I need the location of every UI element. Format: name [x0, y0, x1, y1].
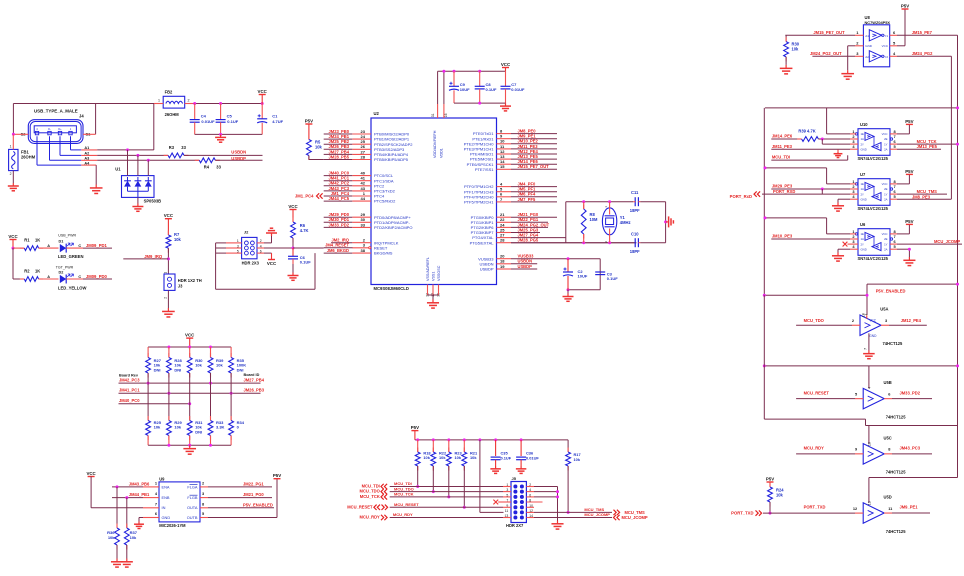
svg-text:GND: GND	[861, 147, 867, 151]
ground under U5A	[863, 351, 875, 359]
MCU pin 26 PTB3/SS2/ADP3	[324, 144, 405, 152]
resistor R37	[124, 498, 137, 559]
wire ENB JM44_PB1	[112, 497, 159, 499]
svg-text:JM8_PE3: JM8_PE3	[912, 194, 931, 199]
net JM09_PD1	[86, 243, 108, 248]
net MCU_RESET label	[394, 502, 419, 507]
svg-text:0.1UF: 0.1UF	[486, 87, 497, 92]
MCU pin 9 PTE1/RxD1	[472, 134, 557, 142]
resistor R31	[187, 373, 203, 445]
wire FLGB JM21_PG0	[200, 497, 272, 499]
wire MCU_TCK	[390, 496, 511, 498]
svg-text:VCC: VCC	[8, 234, 18, 239]
wire MCU_TDO	[796, 324, 860, 326]
svg-text:18PF: 18PF	[630, 249, 640, 254]
wire VDD risers	[438, 71, 444, 118]
junction	[116, 485, 119, 488]
svg-text:VCC: VCC	[882, 44, 889, 48]
wire VUSB33 rail	[568, 259, 600, 290]
junction	[167, 444, 170, 447]
svg-text:U2: U2	[374, 111, 380, 116]
MCU pin 40 PTC0/SCL	[324, 171, 394, 179]
net MCU_RESET at U5B	[804, 390, 830, 395]
svg-text:14: 14	[861, 313, 865, 317]
MCU pin 2 IRQ/TPMCLK	[331, 238, 399, 246]
junction	[567, 257, 570, 260]
svg-text:10k: 10k	[130, 535, 137, 540]
wire JM14_PE6 with R39	[771, 137, 858, 142]
net MCU_TCK label	[394, 492, 414, 497]
net port MCU_TCK	[360, 494, 387, 500]
svg-text:USBDP: USBDP	[231, 156, 246, 161]
svg-text:1K: 1K	[35, 237, 40, 242]
net MCU_JCOMP label	[584, 512, 610, 517]
svg-text:VCC: VCC	[258, 89, 268, 94]
svg-text:Y2: Y2	[884, 55, 888, 59]
power VCC above R7	[164, 213, 174, 235]
junction	[821, 188, 824, 191]
wire EXTAL bottom rail	[511, 242, 636, 244]
ground under A4	[90, 185, 103, 194]
net JM8_PE3	[912, 194, 931, 199]
ground under network	[183, 445, 196, 454]
svg-text:2Y: 2Y	[861, 192, 865, 196]
ground under C7	[500, 103, 511, 111]
svg-text:10UF: 10UF	[578, 274, 588, 279]
wire U7 pin4 gnd	[838, 199, 858, 202]
wire TVS gnd	[137, 197, 139, 203]
wire enable bus jog to U5C	[764, 295, 957, 443]
resistor R36	[107, 487, 119, 559]
svg-text:J4: J4	[79, 113, 84, 118]
ground at U7 pin4	[832, 203, 844, 212]
wire TVS leg3	[147, 160, 149, 175]
wire ENA JM43_PB6	[112, 486, 159, 488]
svg-text:SN74LVC2G125: SN74LVC2G125	[858, 156, 889, 161]
junction	[463, 438, 466, 441]
svg-text:1A: 1A	[861, 187, 865, 191]
svg-text:HDR 2X3: HDR 2X3	[242, 260, 260, 265]
capacitor C3	[595, 271, 618, 281]
svg-text:P5V: P5V	[273, 473, 281, 478]
svg-text:33: 33	[361, 222, 366, 227]
svg-text:U9: U9	[159, 476, 165, 481]
wire U7 pin1 enable	[765, 168, 856, 184]
net MCU_TDI label	[394, 481, 412, 486]
svg-text:LED_GREEN: LED_GREEN	[58, 254, 84, 259]
MCU pin 28 PTG5/EXTAL	[470, 238, 637, 246]
junction	[821, 138, 824, 141]
net MCU_TCK	[917, 139, 937, 144]
resistor R30	[187, 347, 203, 378]
svg-text:2A: 2A	[884, 247, 888, 251]
svg-text:VSS1: VSS1	[432, 272, 436, 281]
svg-text:P5V_ENABLED: P5V_ENABLED	[876, 289, 906, 294]
svg-text:Board ID: Board ID	[244, 373, 260, 377]
junction	[261, 102, 264, 105]
power VCC at U9	[86, 471, 96, 477]
svg-text:GND: GND	[162, 515, 171, 520]
ferrite bead FB2	[158, 90, 190, 118]
net JM27_PB4	[244, 378, 265, 383]
svg-text:JM29_PE3: JM29_PE3	[772, 184, 793, 189]
svg-text:JM09_PD0: JM09_PD0	[86, 274, 108, 279]
wire network top rail	[148, 346, 231, 348]
net JM09_PD0	[86, 274, 108, 279]
IC U6 SN74LVC2G125	[852, 222, 896, 261]
ground at U9	[134, 522, 144, 529]
svg-text:JM13_PE5: JM13_PE5	[917, 144, 938, 149]
wire FB1 top	[12, 134, 14, 149]
MCU pin 15 PTE7/SS1	[475, 164, 557, 172]
MCU pin 22 PTG1/KBIP1	[471, 217, 548, 225]
net JM9_PE1	[900, 505, 919, 510]
svg-text:PORT_RXD: PORT_RXD	[773, 189, 795, 194]
wire U5D out JM9_PE1	[884, 512, 930, 514]
junction	[956, 364, 959, 367]
svg-text:GND: GND	[869, 334, 877, 338]
svg-text:MIC2026-1YM: MIC2026-1YM	[159, 523, 186, 528]
wire enable bus horizontal	[765, 107, 958, 109]
wire J5 pin8 stub	[526, 501, 542, 503]
MCU pin 24 PTB1/MOSI2/ADP1	[324, 134, 410, 142]
svg-text:10k: 10k	[154, 425, 161, 430]
ground under J5	[551, 521, 563, 530]
wire shield loop	[13, 104, 154, 135]
junction	[556, 490, 559, 493]
junction	[866, 294, 869, 297]
wire LED1 row	[13, 247, 24, 249]
USB connector J4 USB_TYPE_A_MALE	[21, 108, 92, 143]
wire cap bottom rail	[195, 133, 263, 135]
junction	[416, 438, 419, 441]
capacitor C7	[501, 71, 525, 103]
svg-text:JM4_RESET: JM4_RESET	[325, 243, 349, 248]
junction	[447, 438, 450, 441]
wire D1 cathode	[66, 244, 112, 248]
svg-text:PTC5/RxD2: PTC5/RxD2	[374, 199, 396, 204]
MCU pin 8 PTE0/TxD1	[473, 129, 557, 137]
resistor R3	[164, 145, 189, 158]
svg-text:ENA: ENA	[162, 484, 170, 489]
MCU pin 33 PTD2/KBIP2/ACMPO	[324, 222, 413, 230]
resistor R33	[208, 373, 224, 445]
MCU pin 43 PTC3/TxD2	[324, 186, 396, 194]
svg-text:A1: A1	[84, 146, 89, 150]
U5A VCC GND pins	[861, 313, 877, 350]
wire U7 out MCU_TMS	[890, 193, 947, 195]
wire C2 gnd	[567, 290, 569, 294]
junction	[12, 247, 15, 250]
svg-text:2A: 2A	[884, 147, 888, 151]
junction	[167, 392, 170, 395]
svg-text:R3: R3	[169, 145, 175, 150]
power P5V above R5	[305, 118, 313, 139]
pin labels A1-A4	[84, 146, 90, 165]
svg-text:10k: 10k	[216, 363, 223, 368]
svg-text:10k: 10k	[792, 46, 800, 51]
svg-text:MCU_TCK: MCU_TCK	[394, 492, 414, 497]
wire JM9_IRQ stub	[123, 258, 168, 260]
power P5V above U8	[901, 3, 909, 9]
svg-text:ENB: ENB	[162, 495, 170, 500]
MCU pin 7 PTF5/TPM2CH1	[464, 197, 557, 205]
wire A2	[60, 136, 168, 155]
wire J2 pin6 to VCC	[257, 253, 272, 259]
svg-text:1Y: 1Y	[884, 242, 888, 246]
wire U6 pin5 gnd	[890, 249, 909, 257]
svg-text:JM21_PG0: JM21_PG0	[243, 492, 264, 497]
ground under U8 pin2	[841, 70, 854, 79]
MCU pin 23 PTB0/MISO2/ADP0	[324, 129, 410, 137]
svg-text:26OHM: 26OHM	[165, 112, 180, 117]
svg-text:VCC: VCC	[86, 471, 96, 476]
power P5V at U7	[905, 169, 913, 175]
wire MCU_TDI stub	[771, 155, 847, 160]
svg-text:PORT_TXD: PORT_TXD	[804, 505, 826, 510]
wire MCU_RESET to U5B	[796, 398, 863, 400]
svg-text:U6: U6	[860, 222, 866, 227]
svg-text:FLGA: FLGA	[187, 484, 198, 489]
svg-text:SP0503B: SP0503B	[144, 199, 162, 204]
svg-text:2A: 2A	[884, 197, 888, 201]
junction	[763, 364, 766, 367]
junction	[188, 346, 191, 349]
svg-text:DNI: DNI	[237, 367, 244, 372]
MCU pin 14 PTE6/SPSCK1	[467, 159, 557, 167]
svg-text:JM11_PE3: JM11_PE3	[772, 144, 793, 149]
wire R7 to J3	[167, 248, 169, 274]
wire P5V_ENABLED feeder	[764, 284, 957, 315]
svg-text:OUTB: OUTB	[187, 515, 198, 520]
svg-text:10M: 10M	[590, 217, 599, 222]
capacitor C35	[491, 440, 512, 466]
junction	[764, 166, 767, 169]
wire MCU_JCOMP	[526, 517, 612, 519]
net JM29_PE3	[772, 184, 793, 189]
wire MCU_TDI	[390, 486, 511, 488]
svg-text:HDR 1X2 TH: HDR 1X2 TH	[178, 278, 202, 283]
svg-text:JM6_BKGD: JM6_BKGD	[327, 248, 349, 253]
junction	[956, 106, 959, 109]
connector J5 HDR 2X7	[505, 476, 534, 528]
ground at U6 pin4	[832, 253, 844, 262]
svg-text:2Y: 2Y	[861, 142, 865, 146]
svg-text:0.1UF: 0.1UF	[300, 259, 311, 264]
connector J2 HDR 2X3	[237, 230, 262, 266]
junction	[188, 444, 191, 447]
svg-text:VCC: VCC	[882, 232, 888, 236]
net JM13_PE5	[917, 144, 938, 149]
svg-text:JM33_PD2: JM33_PD2	[900, 390, 921, 395]
wire U8 pin3 JM24_PG2_OUT	[812, 55, 863, 57]
ground under MCU	[427, 300, 439, 309]
svg-text:PORT_RxD: PORT_RxD	[730, 194, 752, 199]
ground under C35	[490, 466, 500, 473]
wire J2 pin2 to ground	[257, 236, 272, 243]
svg-text:C: C	[78, 244, 81, 248]
LED D1 green	[58, 234, 84, 260]
IC U10 SN74LVC2G125	[852, 122, 896, 161]
net port MCU_JCOMP	[614, 515, 648, 520]
svg-text:1: 1	[158, 99, 160, 103]
svg-text:MCU_RDY: MCU_RDY	[393, 512, 413, 517]
svg-text:JM09_PD1: JM09_PD1	[86, 243, 108, 248]
svg-text:4.7UF: 4.7UF	[272, 119, 283, 124]
svg-text:MCU_RESET: MCU_RESET	[394, 502, 419, 507]
IC U9 MIC2026-1YM	[155, 476, 205, 527]
svg-text:10k: 10k	[195, 363, 202, 368]
svg-text:31: 31	[431, 113, 435, 117]
svg-text:JM12_PE4: JM12_PE4	[901, 318, 922, 323]
resistor R39	[208, 347, 224, 378]
svg-text:2: 2	[164, 297, 168, 299]
wire net row JM41_PC1 JM26_PB3	[119, 392, 261, 394]
svg-text:3.3K: 3.3K	[216, 425, 225, 430]
MCU pin 42 PTC2	[324, 181, 385, 189]
svg-text:BKGD/MS: BKGD/MS	[374, 251, 393, 256]
MCU pin 13 PTE5/MOSI1	[470, 154, 557, 162]
ground under C6	[288, 273, 299, 281]
svg-text:MCU_RDY: MCU_RDY	[360, 515, 381, 520]
power P5V above JTAG rail	[411, 425, 419, 440]
svg-text:JM1_PC4: JM1_PC4	[295, 194, 314, 199]
MCU pin 41 PTC1/SDA	[324, 176, 394, 184]
wire R6 to RESET node	[292, 238, 294, 248]
wire OUTB to P5V	[200, 479, 277, 518]
net JM9_IRQ	[144, 254, 163, 259]
capacitor C9 polarized	[449, 71, 470, 103]
svg-text:33: 33	[181, 145, 186, 150]
wire J3 to ground	[167, 290, 169, 308]
junction	[478, 102, 481, 105]
wire U5C out JM43_PC3	[884, 453, 932, 455]
junction	[478, 70, 481, 73]
wire VDD bottom rail	[454, 102, 506, 104]
resistor R6	[291, 218, 309, 243]
junction	[230, 392, 233, 395]
MCU pin 29 PTD0/ADP8/ACMP+	[324, 212, 412, 220]
wire J5 pins 2 4 6 to ground	[526, 487, 557, 521]
wire enable feeder U5D	[869, 478, 958, 503]
power P5V at U6	[905, 219, 913, 225]
IC U7 SN74LVC2G125	[852, 172, 896, 211]
junction	[193, 102, 196, 105]
resistor R18	[415, 440, 431, 487]
junction	[432, 490, 435, 493]
ground up at J2 pin2	[266, 228, 277, 236]
junction	[219, 133, 222, 136]
capacitor C6	[288, 255, 311, 273]
svg-text:JM28_PB5: JM28_PB5	[329, 154, 350, 159]
svg-text:SN74LVC2G125: SN74LVC2G125	[858, 206, 889, 211]
MCU pin 5 PTF1/TPM1CH3	[464, 187, 557, 195]
svg-text:USBDN: USBDN	[231, 150, 246, 155]
ground under J3	[162, 308, 175, 317]
svg-text:1A: 1A	[861, 137, 865, 141]
resistor R39 label	[798, 128, 815, 133]
svg-text:74HCT125: 74HCT125	[886, 529, 907, 534]
svg-text:0.1UF: 0.1UF	[227, 119, 238, 124]
capacitor C11	[630, 190, 666, 213]
junction	[478, 438, 481, 441]
junction	[147, 382, 150, 385]
capacitor C10	[630, 232, 666, 254]
wire U8 pin6 JM15_PE7	[890, 34, 958, 36]
svg-text:U5C: U5C	[884, 435, 892, 440]
svg-text:11: 11	[505, 509, 509, 513]
svg-text:JM43_PB6: JM43_PB6	[129, 481, 150, 486]
wire FLGA JM22_PG1	[200, 486, 272, 488]
wire network bottom rail	[148, 444, 231, 446]
net P5V_ENABLED at U9	[243, 502, 273, 507]
junction	[209, 382, 212, 385]
net port PORT_TXD	[731, 510, 761, 515]
svg-text:10k: 10k	[470, 455, 477, 460]
MCU pin 6 PTF4/TPM2CH0	[464, 192, 557, 200]
MCU U2 MC9S08JM60CLD body	[371, 111, 497, 291]
svg-text:VSS/AD/REFL: VSS/AD/REFL	[426, 257, 430, 281]
wire PORT_TXD to U5D	[763, 512, 863, 514]
net JM24_PG2_OUT	[810, 51, 842, 56]
buffer U5B 74HCT125	[855, 380, 906, 419]
capacitor C5	[216, 104, 239, 135]
TVS diode array U1 SP0503B	[115, 167, 161, 204]
svg-text:IN: IN	[162, 505, 166, 510]
svg-text:MCU_TDI: MCU_TDI	[772, 155, 790, 160]
svg-text:VCC: VCC	[267, 261, 277, 266]
junction	[167, 346, 170, 349]
svg-text:10: 10	[867, 442, 871, 446]
svg-text:P5V: P5V	[905, 169, 913, 174]
net MCU_TDI	[772, 155, 790, 160]
svg-text:VDD1: VDD1	[440, 148, 444, 158]
svg-text:D+: D+	[58, 127, 62, 131]
crystal Y1 4MHz	[602, 202, 630, 243]
ground under R30	[780, 65, 793, 74]
svg-text:PTG5/EXTAL: PTG5/EXTAL	[470, 240, 495, 245]
junction	[582, 241, 585, 244]
ground under U1	[132, 204, 143, 212]
svg-text:1Y: 1Y	[884, 142, 888, 146]
wire JM11_PE3	[771, 148, 858, 150]
wire U5B out JM33_PD2	[884, 398, 932, 400]
svg-text:VSSOSC: VSSOSC	[437, 265, 441, 281]
svg-text:GND: GND	[865, 44, 873, 48]
ground under C5	[215, 134, 226, 142]
svg-text:1A: 1A	[861, 237, 865, 241]
svg-text:U7: U7	[860, 172, 866, 177]
wire TVS leg2	[137, 155, 139, 175]
svg-text:10k: 10k	[423, 455, 430, 460]
junction	[567, 511, 570, 514]
wire RESET row extension	[324, 247, 353, 249]
wire U6 pin1 enable	[765, 218, 856, 234]
wire FB2 pin1	[154, 103, 163, 105]
net MCU_TDO	[804, 318, 825, 323]
svg-text:U10: U10	[860, 122, 868, 127]
wire R1 to D1	[39, 244, 59, 248]
resistor R25	[146, 373, 162, 445]
svg-text:74HCT125: 74HCT125	[883, 341, 904, 346]
svg-text:JM9_IRQ: JM9_IRQ	[144, 254, 163, 259]
svg-text:MCU_TDO: MCU_TDO	[804, 318, 825, 323]
svg-text:MCU_TCK: MCU_TCK	[360, 494, 380, 499]
resistor R22	[431, 440, 447, 492]
junction	[567, 288, 570, 291]
svg-text:10k: 10k	[776, 492, 784, 497]
net JM26_PB3	[244, 388, 265, 393]
